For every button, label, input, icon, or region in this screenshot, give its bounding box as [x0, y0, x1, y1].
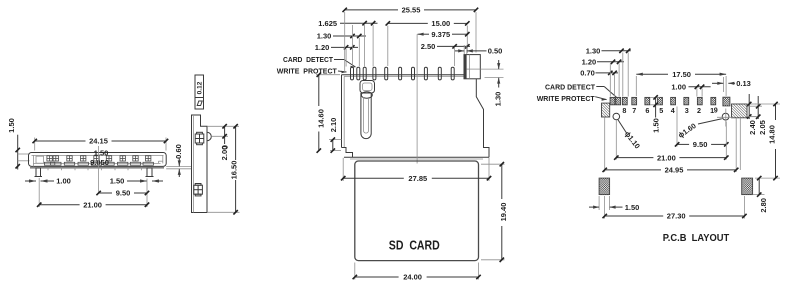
- front view: dimension 1.00: [25, 180, 36, 182]
- svg-text:24.00: 24.00: [403, 273, 422, 282]
- side view: extension lines: [208, 125, 239, 127]
- svg-text:1.50: 1.50: [625, 203, 640, 212]
- pcb: mounting pad bottom left: [599, 178, 610, 195]
- side view: body outline: [192, 115, 208, 213]
- svg-text:17.50: 17.50: [672, 70, 691, 79]
- pcb: dimension 2.05: [748, 105, 763, 107]
- svg-text:0.13: 0.13: [736, 79, 751, 88]
- top view: dimension 15.00: [387, 26, 389, 67]
- svg-text:1.30: 1.30: [317, 32, 332, 41]
- front view: right end step: [157, 161, 159, 163]
- svg-text:WRITE PROTECT: WRITE PROTECT: [277, 67, 338, 76]
- pcb: dimension 27.30: [604, 196, 606, 219]
- svg-text:0.12: 0.12: [196, 81, 203, 94]
- svg-text:1.30: 1.30: [493, 92, 502, 107]
- svg-text:2.80: 2.80: [759, 198, 768, 213]
- side view: dimension 16.50: [235, 126, 237, 160]
- svg-text:WRITE PROTECT: WRITE PROTECT: [537, 94, 596, 103]
- svg-text:2: 2: [697, 106, 701, 115]
- side view: flatness feature control frame: [195, 75, 204, 109]
- top view: dimension 14.60: [316, 74, 340, 76]
- svg-text:1.00: 1.00: [56, 177, 71, 186]
- svg-text:0.60: 0.60: [174, 144, 183, 159]
- svg-text:16.50: 16.50: [230, 161, 239, 180]
- svg-text:7: 7: [632, 106, 636, 115]
- svg-text:14.80: 14.80: [767, 125, 776, 144]
- svg-text:8: 8: [622, 106, 626, 115]
- top view: stacked dim extension lines: [345, 49, 347, 67]
- pcb: dimension 17.50: [635, 76, 637, 96]
- svg-text:2.50: 2.50: [421, 42, 436, 51]
- svg-text:1.50: 1.50: [7, 118, 16, 133]
- svg-text:0.70: 0.70: [580, 69, 595, 78]
- top view: dimension 2.10: [329, 139, 342, 141]
- side view: dimension 2.00: [224, 126, 226, 144]
- side view: right bump: [207, 132, 211, 141]
- top view: right side edge: [476, 79, 489, 157]
- front view: dimension 24.15: [34, 138, 36, 151]
- svg-text:24.95: 24.95: [665, 166, 684, 175]
- card dimension 19.40: [481, 163, 505, 165]
- pcb: dimension 24.95: [604, 117, 606, 172]
- svg-text:15.00: 15.00: [431, 19, 450, 28]
- svg-text:27.85: 27.85: [408, 174, 427, 183]
- front view: left mounting tab: [18, 153, 30, 155]
- svg-text:27.30: 27.30: [667, 212, 686, 221]
- pcb: dimension 1.50 bottom: [598, 196, 600, 210]
- svg-text:9.50: 9.50: [693, 140, 708, 149]
- svg-text:2.05: 2.05: [758, 120, 767, 135]
- svg-text:2.40: 2.40: [748, 120, 757, 135]
- svg-text:9.50: 9.50: [116, 189, 131, 198]
- pcb: chassis pad right: [732, 104, 748, 118]
- svg-text:3: 3: [685, 106, 689, 115]
- front view: dimension 21.00: [38, 178, 40, 207]
- top view: body outline: [341, 75, 343, 148]
- svg-text:9.375: 9.375: [431, 30, 450, 39]
- svg-text:0.50: 0.50: [488, 47, 503, 56]
- top view: dimension 1.30 right: [481, 68, 504, 70]
- side view: lower contact: [194, 184, 203, 196]
- top view: dimension 25.55: [344, 12, 346, 73]
- front view: right leg: [147, 168, 152, 177]
- svg-text:1.50: 1.50: [94, 149, 109, 158]
- svg-text:SD CARD: SD CARD: [389, 238, 440, 253]
- svg-text:P.C.B LAYOUT: P.C.B LAYOUT: [663, 233, 730, 244]
- pcb: mounting pad bottom right: [742, 178, 753, 195]
- pcb: write protect pad: [602, 103, 610, 117]
- svg-text:2.10: 2.10: [329, 118, 338, 133]
- pcb: contact pads row: [610, 97, 615, 104]
- front view: connector body outline: [29, 153, 167, 167]
- pcb: chassis pad extension line: [739, 118, 741, 170]
- pcb: dimension 2.80: [753, 194, 765, 196]
- pcb: dimension 2.40: [747, 103, 757, 105]
- svg-text:1.625: 1.625: [318, 19, 337, 28]
- front view: contact row: [44, 156, 54, 165]
- front view: right mounting tab: [166, 166, 191, 168]
- front view: left end cavity: [36, 156, 44, 163]
- pcb: dimension 21.00: [615, 120, 617, 160]
- svg-text:14.60: 14.60: [316, 109, 325, 128]
- front view: dimension 0.60: [174, 144, 183, 159]
- svg-text:21.00: 21.00: [83, 200, 102, 209]
- pcb: upper extension lines: [609, 64, 611, 97]
- top view: top right block: [464, 55, 480, 79]
- svg-text:4: 4: [671, 106, 675, 115]
- front view: contact tails below body: [47, 168, 49, 170]
- svg-text:9: 9: [714, 106, 718, 115]
- svg-text:24.15: 24.15: [89, 137, 108, 146]
- top view: dimension 9.375: [418, 33, 429, 35]
- pcb: hole 1.10 with leader: [613, 113, 620, 120]
- svg-text:1.20: 1.20: [582, 58, 597, 67]
- side view: upper contact: [195, 132, 204, 144]
- svg-text:CARD DETECT: CARD DETECT: [283, 55, 333, 64]
- front view: dimension 9.50: [146, 179, 148, 208]
- svg-text:1.20: 1.20: [315, 43, 330, 52]
- pcb: pad height dimension 1.50: [650, 96, 660, 98]
- pcb: hole 1.60 with crosshair: [722, 113, 729, 120]
- svg-text:1.50: 1.50: [110, 177, 125, 186]
- front view: centre extension line: [98, 146, 100, 193]
- svg-text:6: 6: [645, 106, 649, 115]
- svg-text:1.00: 1.00: [671, 83, 686, 92]
- card dimension 24.00: [354, 263, 356, 280]
- svg-text:1.50: 1.50: [651, 118, 660, 133]
- SD card outline: [355, 161, 479, 261]
- pcb: pin 9 pad: [723, 97, 730, 106]
- svg-text:21.00: 21.00: [657, 153, 676, 162]
- top view: contact pins: [351, 67, 354, 80]
- top view: bottom shell edge: [344, 156, 489, 158]
- top view: write protect switch detail: [360, 81, 375, 94]
- svg-text:CARD DETECT: CARD DETECT: [545, 83, 596, 92]
- svg-text:5: 5: [659, 106, 663, 115]
- top view: dimension 27.85: [342, 158, 344, 181]
- pcb: dimension 14.80: [755, 103, 780, 105]
- front view: left leg: [36, 168, 41, 177]
- svg-text:9.050: 9.050: [90, 158, 109, 167]
- top view: left foot: [342, 148, 353, 158]
- front view: left 1.50 dimension: [17, 135, 19, 170]
- svg-text:1.30: 1.30: [586, 47, 601, 56]
- svg-text:19.40: 19.40: [499, 203, 508, 222]
- top view: centre extension line: [416, 34, 418, 163]
- pcb: dimension 0.13: [723, 77, 725, 92]
- svg-text:25.55: 25.55: [402, 6, 421, 15]
- pcb: dimension 9.50: [676, 107, 678, 147]
- top view: dimension 0.50: [463, 45, 465, 54]
- svg-text:2.00: 2.00: [220, 146, 229, 161]
